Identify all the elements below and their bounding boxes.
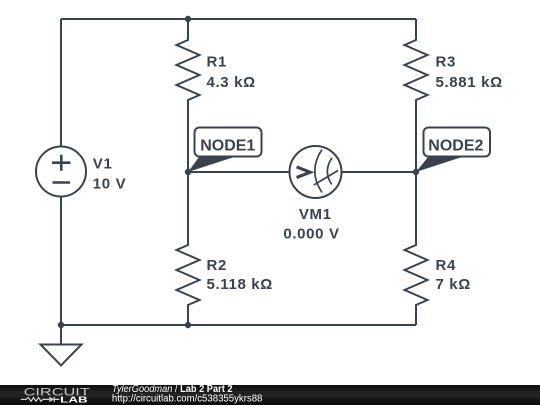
label R4 value — [436, 257, 471, 293]
svg-text:R3: R3 — [436, 54, 456, 71]
svg-text:V1: V1 — [93, 155, 113, 172]
label VM1 value — [283, 206, 339, 242]
svg-text:5.881 kΩ: 5.881 kΩ — [436, 74, 503, 91]
svg-text:http://circuitlab.com/c538355y: http://circuitlab.com/c538355ykrs88 — [112, 394, 263, 405]
label V1 value — [93, 155, 126, 192]
svg-text:5.118 kΩ: 5.118 kΩ — [207, 276, 273, 293]
svg-text:0.000 V: 0.000 V — [283, 226, 339, 243]
resistor R2 — [177, 172, 200, 325]
resistor R3 — [405, 19, 428, 172]
svg-text:4.3 kΩ: 4.3 kΩ — [207, 74, 256, 91]
wire VM1 to NODE2 — [342, 171, 417, 173]
junction node NODE2 — [413, 169, 419, 175]
junction node top (R1/top rail) — [185, 16, 191, 22]
svg-text:NODE1: NODE1 — [200, 138, 255, 155]
footer bar — [0, 385, 540, 405]
junction node ground rail — [58, 322, 64, 328]
label R3 value — [436, 54, 503, 91]
svg-text:LAB: LAB — [60, 395, 87, 405]
svg-text:10 V: 10 V — [93, 175, 126, 192]
junction node bottom (R2/bottom rail) — [185, 322, 191, 328]
svg-text:NODE2: NODE2 — [428, 138, 483, 155]
svg-text:R4: R4 — [436, 257, 456, 274]
svg-text:R1: R1 — [207, 54, 227, 71]
wire left vertical (top of V1) — [60, 19, 62, 147]
wire bottom rail — [61, 324, 416, 326]
wire top rail — [61, 18, 416, 20]
junction node NODE1 — [185, 169, 191, 175]
voltage source V1 — [36, 147, 86, 197]
resistor R1 — [177, 19, 200, 172]
svg-text:VM1: VM1 — [299, 206, 332, 223]
resistor R4 — [405, 172, 428, 325]
label R1 value — [207, 54, 256, 91]
node flag NODE2 — [416, 128, 490, 173]
footer logo resistor-diode glyph — [21, 397, 60, 402]
wire NODE1 to VM1 — [188, 171, 290, 173]
svg-text:7 kΩ: 7 kΩ — [436, 276, 471, 293]
svg-text:R2: R2 — [207, 257, 227, 274]
ground — [41, 325, 82, 366]
node flag NODE1 — [188, 128, 262, 173]
label R2 value — [207, 257, 273, 293]
wire V1 bottom to ground rail — [60, 197, 62, 326]
voltmeter VM1 — [290, 146, 342, 198]
